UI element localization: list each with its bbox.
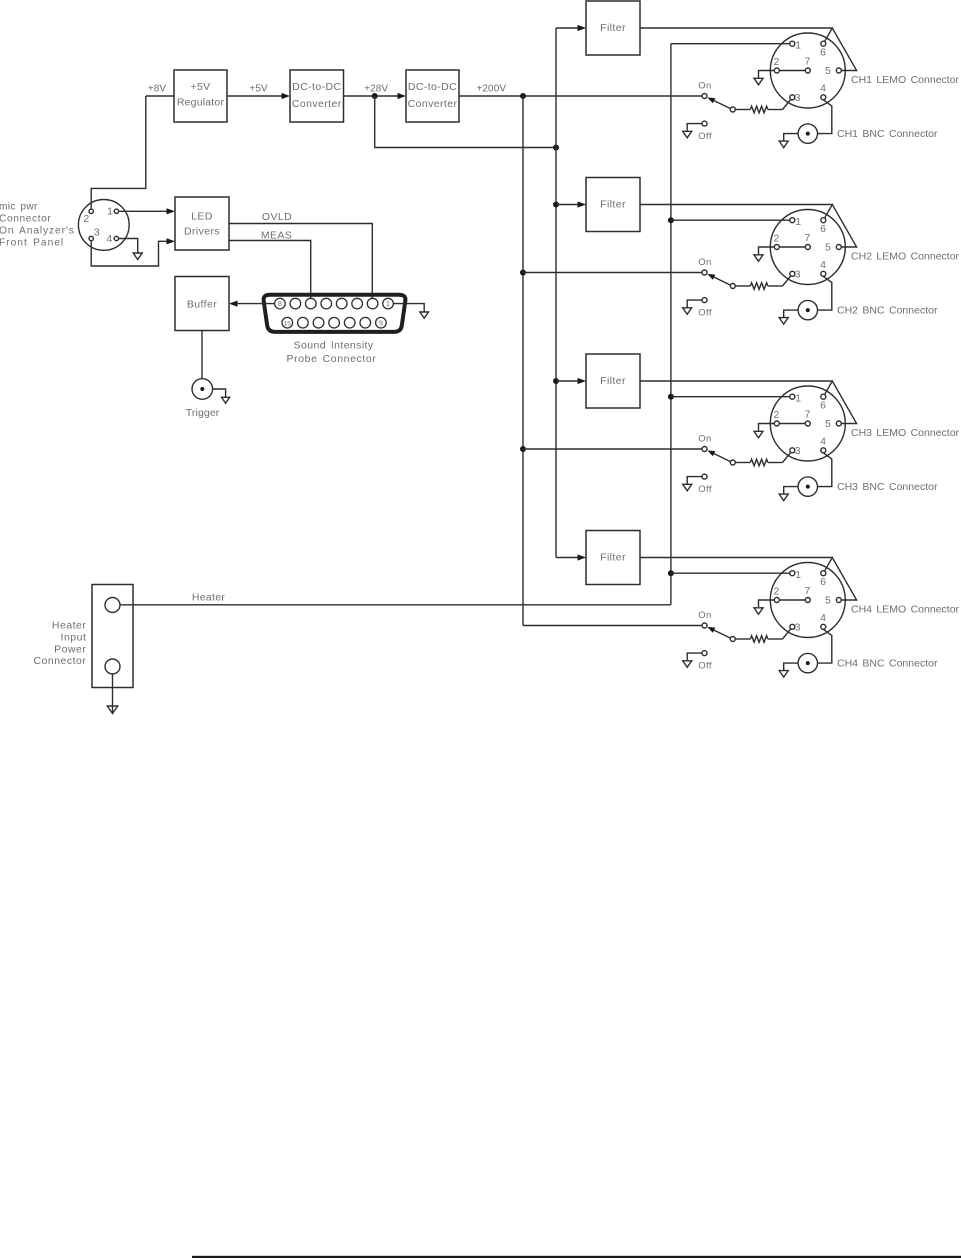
svg-text:4: 4 (820, 612, 826, 624)
svg-text:Sound Intensity: Sound Intensity (294, 340, 374, 352)
svg-text:8: 8 (278, 301, 282, 308)
svg-text:DC-to-DC: DC-to-DC (408, 81, 457, 93)
svg-text:6: 6 (820, 576, 826, 588)
svg-text:Drivers: Drivers (184, 225, 220, 237)
svg-text:4: 4 (820, 82, 826, 94)
svg-text:Front Panel: Front Panel (0, 238, 64, 249)
svg-text:2: 2 (773, 56, 779, 68)
svg-text:CH4 BNC Connector: CH4 BNC Connector (837, 658, 938, 670)
svg-text:Connector: Connector (33, 655, 86, 667)
svg-text:1: 1 (386, 301, 390, 308)
svg-text:3: 3 (795, 445, 801, 457)
svg-text:CH2 BNC Connector: CH2 BNC Connector (837, 305, 938, 317)
svg-text:Off: Off (698, 308, 712, 319)
svg-text:Trigger: Trigger (186, 407, 220, 419)
svg-text:Filter: Filter (600, 552, 626, 564)
svg-text:+8V: +8V (148, 84, 167, 95)
svg-text:LED: LED (191, 210, 213, 222)
svg-text:On: On (698, 80, 711, 91)
svg-text:Filter: Filter (600, 375, 626, 387)
svg-text:7: 7 (804, 585, 810, 597)
svg-text:15: 15 (284, 320, 291, 327)
svg-text:9: 9 (379, 320, 383, 327)
svg-text:CH2 LEMO Connector: CH2 LEMO Connector (851, 251, 960, 263)
svg-text:+5V: +5V (190, 81, 210, 93)
svg-text:5: 5 (825, 241, 831, 253)
svg-text:+5V: +5V (249, 84, 268, 95)
svg-text:Heater: Heater (52, 620, 87, 632)
svg-text:On: On (698, 433, 711, 444)
svg-text:Heater: Heater (192, 592, 226, 604)
svg-text:1: 1 (795, 569, 801, 581)
svg-text:Off: Off (698, 661, 712, 672)
svg-text:Off: Off (698, 131, 712, 142)
svg-text:2: 2 (773, 409, 779, 421)
svg-text:3: 3 (795, 268, 801, 280)
svg-text:2: 2 (83, 213, 89, 225)
svg-text:6: 6 (820, 223, 826, 235)
svg-text:Filter: Filter (600, 22, 626, 34)
svg-text:CH3 BNC Connector: CH3 BNC Connector (837, 481, 938, 493)
svg-text:2: 2 (773, 233, 779, 245)
svg-text:On Analyzer's: On Analyzer's (0, 226, 75, 237)
svg-text:MEAS: MEAS (261, 229, 292, 241)
svg-text:1: 1 (107, 206, 113, 218)
svg-text:1: 1 (795, 392, 801, 404)
svg-text:OVLD: OVLD (262, 211, 292, 223)
svg-text:Power: Power (54, 643, 86, 655)
svg-text:+28V: +28V (364, 84, 388, 95)
svg-text:Input: Input (61, 631, 87, 643)
svg-text:3: 3 (795, 621, 801, 633)
svg-text:3: 3 (795, 92, 801, 104)
svg-text:CH1 BNC Connector: CH1 BNC Connector (837, 128, 938, 140)
svg-text:mic pwr: mic pwr (0, 202, 38, 213)
svg-text:Regulator: Regulator (177, 97, 225, 109)
svg-text:+200V: +200V (476, 84, 506, 95)
svg-text:5: 5 (825, 418, 831, 430)
svg-text:Buffer: Buffer (187, 299, 217, 311)
svg-text:Converter: Converter (292, 98, 342, 110)
svg-text:7: 7 (804, 55, 810, 67)
svg-text:5: 5 (825, 594, 831, 606)
svg-text:1: 1 (795, 216, 801, 228)
svg-text:6: 6 (820, 400, 826, 412)
svg-text:4: 4 (106, 233, 112, 245)
svg-text:Filter: Filter (600, 199, 626, 211)
svg-text:On: On (698, 257, 711, 268)
svg-text:2: 2 (773, 586, 779, 598)
svg-text:5: 5 (825, 65, 831, 77)
svg-text:On: On (698, 610, 711, 621)
svg-text:1: 1 (795, 39, 801, 51)
svg-text:CH4 LEMO Connector: CH4 LEMO Connector (851, 604, 960, 616)
svg-text:Converter: Converter (408, 98, 458, 110)
svg-text:3: 3 (94, 226, 100, 238)
svg-text:Probe Connector: Probe Connector (287, 353, 377, 365)
svg-text:Off: Off (698, 484, 712, 495)
svg-text:Connector: Connector (0, 214, 51, 225)
svg-text:7: 7 (804, 232, 810, 244)
svg-text:6: 6 (820, 47, 826, 59)
svg-text:DC-to-DC: DC-to-DC (292, 81, 341, 93)
svg-text:4: 4 (820, 435, 826, 447)
svg-text:7: 7 (804, 408, 810, 420)
svg-text:4: 4 (820, 259, 826, 271)
svg-text:CH3 LEMO Connector: CH3 LEMO Connector (851, 427, 960, 439)
svg-text:CH1 LEMO Connector: CH1 LEMO Connector (851, 74, 960, 86)
